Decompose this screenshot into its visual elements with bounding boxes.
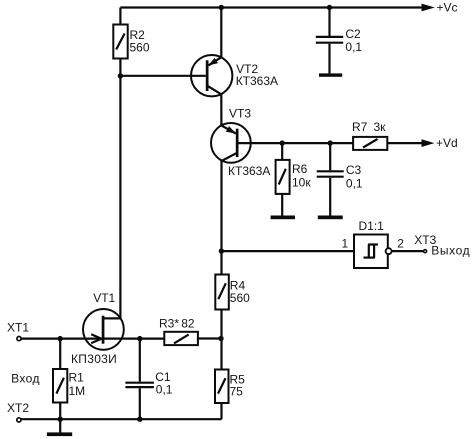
svg-text:0,1: 0,1 [156,383,173,397]
svg-text:КТ363А: КТ363А [228,164,270,178]
svg-text:0,1: 0,1 [345,40,362,54]
ground main [47,419,72,436]
transistor VT1 [71,291,124,366]
svg-text:+Vc: +Vc [437,1,458,15]
transistor VT3 [211,106,270,178]
svg-text:КТ363А: КТ363А [236,74,278,88]
junction collector wire / D1 input [219,248,224,253]
svg-text:R3*: R3* [159,316,179,330]
junction R2 / VT2 base [118,73,123,78]
svg-text:XT1: XT1 [7,321,29,335]
svg-text:10к: 10к [292,175,311,189]
junction R1 / bottom rail [58,417,63,422]
terminal XT3 [414,233,470,257]
wire bottom rail [21,418,221,420]
wire VT2 base [120,75,205,77]
svg-text:3к: 3к [374,120,387,134]
wire VT3 collector down to R4 [220,161,222,275]
transistor VT2 [191,8,278,97]
svg-text:1M: 1M [69,384,86,398]
resistor R6 [276,143,312,216]
resistor R1 [53,339,85,420]
power +Vc [422,1,458,15]
svg-text:2: 2 [397,236,404,250]
resistor R2 [113,8,150,76]
logic element D1:1 (Schmitt trigger) [342,219,405,268]
wire top +Vc rail [120,6,423,8]
svg-text:Выход: Выход [431,243,470,257]
junction base wire / C3 [328,140,333,145]
svg-text:VT1: VT1 [93,291,115,305]
power +Vd [422,136,458,150]
junction top rail / C2 [327,5,332,10]
capacitor C2 [316,8,363,74]
junction gate wire / R1 [58,336,63,341]
junction base wire / R6 [280,140,285,145]
capacitor C3 [317,143,363,216]
wire VT3 base to R7 [239,142,354,144]
svg-text:560: 560 [130,41,150,55]
junction source wire / C1 [137,336,142,341]
svg-text:1: 1 [342,236,349,250]
terminal XT1 [7,321,29,341]
svg-text:VT3: VT3 [229,106,251,120]
svg-text:R1: R1 [69,370,85,384]
wire R2 junction down to VT1 drain [119,76,121,319]
svg-text:C2: C2 [345,27,361,41]
svg-text:R6: R6 [292,162,308,176]
junction R4 / R5 / R3* [218,336,223,341]
wire input XT1 to R3* [21,338,164,340]
resistor R3* [159,316,221,345]
resistor R5 [215,339,245,420]
svg-text:560: 560 [230,291,250,305]
junction top rail / VT2 emitter [219,5,224,10]
terminal XT2 [7,401,29,422]
ground R6 [271,216,295,220]
ground C3 [318,216,343,220]
junction C1 / bottom rail [137,417,142,422]
ground C2 [319,73,342,76]
svg-text:D1:1: D1:1 [359,219,385,233]
wire D1 output to XT3 [392,250,424,252]
svg-text:C3: C3 [346,163,362,177]
svg-text:0,1: 0,1 [346,176,363,190]
wire to D1 pin 1 [221,250,354,252]
svg-text:+Vd: +Vd [436,136,458,150]
svg-text:82: 82 [181,316,195,330]
capacitor C1 [125,339,172,420]
svg-text:КП303И: КП303И [71,352,117,366]
resistor R7 [352,120,422,150]
svg-text:75: 75 [230,384,244,398]
svg-text:Вход: Вход [11,372,40,386]
svg-text:R7: R7 [352,120,368,134]
wire VT2 collector to VT3 emitter [220,94,222,125]
inverter bubble D1 output [386,248,392,254]
resistor R4 [215,275,250,339]
svg-text:XT2: XT2 [7,401,29,415]
